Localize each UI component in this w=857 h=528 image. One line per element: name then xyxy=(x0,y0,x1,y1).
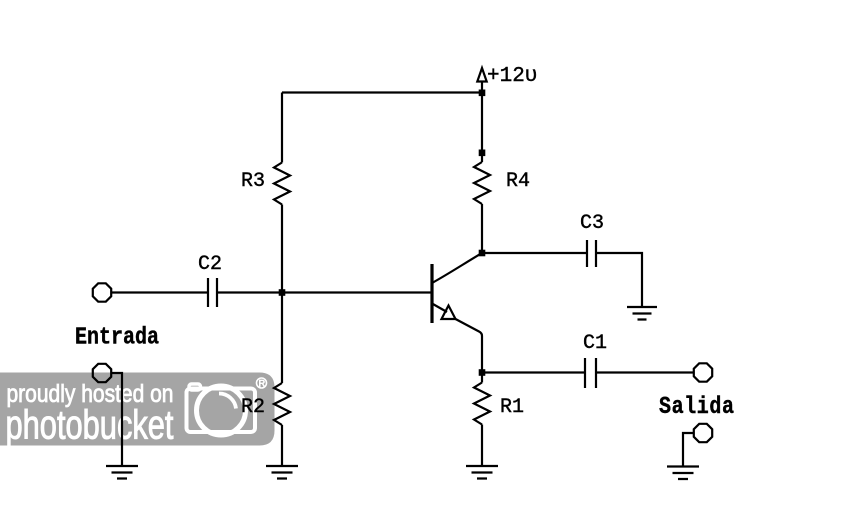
svg-text:photobucket: photobucket xyxy=(6,401,174,447)
wire: C3 right plate to ground drop xyxy=(596,253,642,306)
wire: from +12v node down to R4 xyxy=(481,93,483,163)
resistor R2 xyxy=(274,383,290,425)
label R1 xyxy=(500,396,524,419)
output terminal (Salida lower) xyxy=(694,424,712,442)
label +12v xyxy=(487,65,537,88)
capacitor C2 xyxy=(208,278,217,307)
photobucket watermark band xyxy=(0,373,275,446)
label C1 xyxy=(583,332,607,355)
output terminal (Salida upper) xyxy=(694,363,712,381)
ground below lower input terminal xyxy=(106,466,138,479)
svg-text:R: R xyxy=(259,378,266,388)
resistor R4 xyxy=(474,162,490,204)
svg-text:C1: C1 xyxy=(583,332,607,355)
transistor Q1 collector lead xyxy=(432,253,482,283)
wire: base node to transistor base xyxy=(282,291,431,293)
svg-text:C3: C3 xyxy=(580,212,604,235)
transistor Q1 emitter lead xyxy=(432,304,447,313)
svg-text:+12υ: +12υ xyxy=(487,65,537,88)
wire: emitter node to C1 xyxy=(482,371,585,373)
photobucket watermark registered trademark symbol xyxy=(257,378,267,388)
ground below R1 xyxy=(466,466,498,479)
label R3 xyxy=(241,170,265,193)
capacitor C3 xyxy=(587,240,596,267)
wire: collector node to C3 xyxy=(482,252,587,254)
wire: emitter to emitter node xyxy=(456,319,483,373)
wire: C1 to output terminal xyxy=(596,371,694,373)
svg-text:R4: R4 xyxy=(506,170,530,193)
wire: lower input terminal elbow to ground xyxy=(111,373,122,465)
junction dot at base node xyxy=(279,289,286,296)
junction dot at R4 top pin xyxy=(479,150,486,157)
label R2 xyxy=(241,396,265,419)
svg-text:Entrada: Entrada xyxy=(75,324,159,351)
wire: +12v top rail horizontal xyxy=(282,91,482,93)
label R4 xyxy=(506,170,530,193)
ground below R2 xyxy=(266,466,298,479)
photobucket watermark text "proudly hosted on" xyxy=(7,380,174,407)
wire: left vertical from rail down to R3 xyxy=(281,93,283,163)
junction dot at collector node xyxy=(479,250,486,257)
resistor R1 xyxy=(474,383,490,425)
wire: R2 bottom to ground xyxy=(281,425,283,466)
svg-text:C2: C2 xyxy=(198,253,222,276)
photobucket watermark camera icon xyxy=(187,384,256,435)
ground below C3 xyxy=(627,307,657,320)
input terminal (Entrada upper) xyxy=(93,283,111,301)
wire: base node down to R2 xyxy=(281,293,283,384)
wire: C2 to base node xyxy=(217,291,282,293)
svg-text:R2: R2 xyxy=(241,396,265,419)
label C3 xyxy=(580,212,604,235)
label C2 xyxy=(198,253,222,276)
resistor R3 xyxy=(274,163,290,205)
label Salida xyxy=(659,393,734,420)
transistor Q1 emitter arrow (PNP) xyxy=(442,306,456,320)
wire: R1 bottom to ground xyxy=(481,425,483,467)
wire: input terminal to C2 xyxy=(111,291,208,293)
photobucket watermark text "photobucket" xyxy=(6,401,174,447)
input terminal (Entrada lower) xyxy=(93,364,111,382)
junction dot at +12v node xyxy=(479,90,486,97)
wire: emitter node down to R1 xyxy=(481,373,483,383)
wire: R3 bottom to base node xyxy=(281,205,283,293)
transistor Q1 base bar xyxy=(430,264,433,323)
power symbol +12v triangle xyxy=(477,68,486,93)
label Entrada xyxy=(75,324,159,351)
svg-text:R3: R3 xyxy=(241,170,265,193)
svg-text:R1: R1 xyxy=(500,396,524,419)
wire: lower output terminal elbow to ground xyxy=(683,433,694,466)
junction dot at emitter node xyxy=(479,369,486,376)
ground below lower output terminal xyxy=(667,467,699,480)
capacitor C1 xyxy=(585,358,596,388)
svg-text:Salida: Salida xyxy=(659,393,734,420)
wire: R4 bottom to collector node xyxy=(481,204,483,253)
